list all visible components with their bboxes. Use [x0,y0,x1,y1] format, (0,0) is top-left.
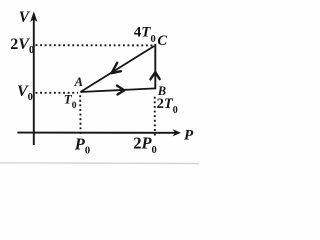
P axis arrowhead [173,129,181,136]
V axis arrowhead [30,11,37,22]
dotted guide B down to 2P0 [154,97,156,136]
arrow on B-C [150,72,159,79]
svg-text:C: C [157,33,167,49]
P axis [17,132,175,134]
process line B to C [154,44,156,89]
dotted guide 2V0 to C [36,44,153,46]
V axis [33,14,35,145]
dotted guide V0 to A [36,92,79,94]
process line A to B [80,88,155,92]
svg-text:A: A [74,75,83,89]
svg-text:P: P [184,127,194,143]
arrow on A-B [117,86,124,95]
dotted guide A down to P0 [79,95,81,137]
svg-text:V: V [19,9,31,26]
arrow on C-A [112,63,121,73]
process line C to A [80,46,154,92]
faint scan line at bottom [0,162,199,165]
